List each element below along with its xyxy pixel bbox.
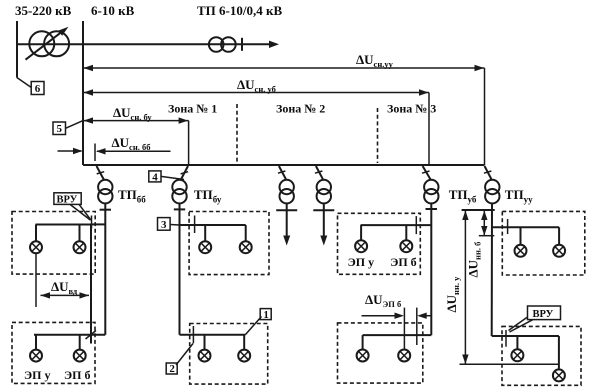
- right group lower dashed box: [502, 326, 581, 385]
- group1 upper lamp 2: [74, 241, 86, 253]
- zone3 lower dashed box: [338, 323, 423, 383]
- group2 upper lamp 2 drop: [245, 225, 247, 241]
- callout 1: [260, 309, 271, 320]
- LV tick TPbu: [174, 208, 185, 210]
- zone3 lower lamp 1: [357, 350, 369, 362]
- right lower lamp 2: [553, 369, 565, 381]
- dimension dU nn.b: [483, 210, 485, 236]
- right lower lamp 1: [511, 349, 523, 361]
- svg-text:6: 6: [35, 83, 41, 95]
- main 0,4 kV line: [83, 164, 485, 166]
- callout 5: [53, 122, 66, 135]
- transformer TPbu: [172, 180, 186, 194]
- tick on TP outgoing line: [241, 38, 243, 51]
- zone3 upper lamp 1: [355, 240, 367, 252]
- group2 lower bus tick: [192, 326, 194, 343]
- zone3 upper lamp 2 drop: [405, 225, 407, 240]
- zone2 feeder A with arrow: [286, 203, 288, 236]
- svg-text:Зона № 3: Зона № 3: [387, 102, 436, 116]
- group2 upper lamp 1: [199, 241, 211, 253]
- right upper lamp 1: [515, 245, 527, 257]
- group1 jog wire VRU junction: [91, 223, 105, 225]
- svg-text:6-10 кВ: 6-10 кВ: [91, 3, 135, 18]
- right lower lamp 1 drop: [516, 336, 518, 349]
- zone2 transformer B: [317, 180, 331, 194]
- wire HV feeder: [17, 43, 271, 45]
- svg-text:ВРУ: ВРУ: [533, 309, 554, 320]
- riser dU sn.uu: [484, 68, 486, 165]
- guide dU nn.u bottom: [460, 363, 559, 365]
- right lower lamp 2 drop: [558, 336, 560, 369]
- LV tick TPub: [426, 208, 438, 210]
- group2 lower lamp 2 drop: [243, 335, 245, 350]
- bus 35-220 kV: [16, 21, 18, 78]
- zone3 lower lamp 1 drop: [362, 335, 364, 349]
- group2 upper dashed box: [189, 212, 269, 275]
- tap-changer arrow of T1: [26, 32, 62, 59]
- transformer T1 35-220/6-10: [29, 31, 54, 56]
- transformer TPbb: [98, 180, 112, 194]
- right upper lamp 1 drop: [520, 227, 522, 245]
- group1 upper box bus: [36, 224, 92, 226]
- LV guide line TPuu: [462, 209, 495, 211]
- right group upper bus tick: [507, 219, 509, 234]
- right lower bus tick: [505, 330, 507, 347]
- svg-text:ВРУ: ВРУ: [57, 194, 78, 205]
- riser dU sn.ub: [428, 93, 430, 166]
- guide dU nn.b bottom: [479, 235, 495, 237]
- transformer TPuu: [485, 180, 499, 194]
- zone divider 2-3: [377, 108, 379, 163]
- right group lower bus: [492, 335, 559, 337]
- right group upper bus: [492, 226, 559, 228]
- group2 lower bus: [180, 334, 246, 336]
- svg-text:4: 4: [152, 171, 158, 183]
- riser dU sn.bu: [188, 121, 190, 165]
- svg-text:Зона № 1: Зона № 1: [168, 102, 217, 116]
- transformer TPbu drop from main line: [180, 166, 188, 181]
- zone2 transformer A LV tick: [276, 209, 297, 211]
- LV tick TPbb: [100, 209, 111, 211]
- svg-text:Зона № 2: Зона № 2: [276, 102, 325, 116]
- callout 4: [149, 171, 161, 182]
- svg-text:ЭП у: ЭП у: [24, 368, 50, 382]
- VRU pointer right: [509, 317, 528, 331]
- feeder TPub down: [430, 203, 432, 335]
- dimension dU nn.u: [464, 210, 466, 364]
- group2 upper lamp 1 drop: [204, 225, 206, 241]
- zone3 lower bus: [363, 334, 432, 336]
- group1 lower lamp 2 drop: [79, 335, 81, 350]
- group1 junction tick: [91, 216, 93, 229]
- group1 VRU branch tick at bus: [86, 331, 97, 340]
- group2 upper bus tick: [194, 216, 196, 234]
- right upper lamp 2 drop: [558, 227, 560, 245]
- feeder TPbu down: [179, 203, 181, 334]
- group2 upper box bus: [180, 224, 246, 226]
- svg-text:ТП 6-10/0,4 кВ: ТП 6-10/0,4 кВ: [197, 3, 282, 18]
- zone3 upper bus tick: [415, 216, 417, 234]
- svg-text:3: 3: [161, 219, 167, 231]
- svg-text:ЭП б: ЭП б: [64, 368, 90, 382]
- svg-text:5: 5: [57, 123, 63, 135]
- callout 3: [158, 218, 171, 231]
- group1 VRU branch down: [90, 224, 92, 343]
- zone divider 1-2: [236, 104, 238, 163]
- transformer TPub: [424, 180, 438, 194]
- group1 lower lamp 1: [30, 350, 42, 362]
- guide line lamp drop zone3: [403, 308, 405, 350]
- zone2 transformer A: [280, 180, 294, 194]
- group2 lower lamp 1 drop: [204, 335, 206, 350]
- zone3 lower lamp 2: [398, 350, 410, 362]
- zone3 upper bus: [361, 224, 432, 226]
- bus 6-10 kV: [82, 21, 84, 165]
- VRU pointer left: [70, 204, 90, 220]
- group1 lower lamp 1 drop: [35, 335, 37, 350]
- group2 lower dashed box: [190, 324, 268, 385]
- VRU box right: [528, 306, 561, 320]
- zone3 upper lamp 2: [400, 240, 412, 252]
- group1 upper lamp 1 drop: [35, 225, 37, 242]
- callout 2: [166, 363, 177, 374]
- zone2 transformer A drop: [279, 166, 286, 179]
- svg-text:ЭП б: ЭП б: [390, 255, 416, 269]
- arrowhead TP feeder: [269, 41, 279, 48]
- group1 lower dashed box: [12, 322, 95, 383]
- group2 lower lamp 2: [238, 350, 250, 362]
- group1 upper lamp 2 drop: [79, 225, 81, 242]
- VRU box left: [54, 193, 81, 205]
- group2 upper lamp 2: [240, 241, 252, 253]
- zone2 feeder B with arrow: [323, 203, 325, 236]
- callout 6: [17, 78, 32, 88]
- transformer TPbb drop from main line: [97, 166, 105, 181]
- group2 lower lamp 1: [199, 350, 211, 362]
- zone3 upper dashed box: [338, 213, 421, 274]
- group1 lower bus: [34, 334, 105, 336]
- svg-text:2: 2: [169, 363, 175, 375]
- zone2 transformer B LV tick: [313, 209, 334, 211]
- feeder TPuu down: [491, 203, 493, 336]
- right group upper dashed box: [502, 211, 585, 275]
- group1 upper dashed box: [12, 212, 95, 275]
- group1 upper lamp 1: [30, 241, 42, 253]
- transformer TPuu drop: [485, 166, 492, 179]
- transformer TP 6-10/0,4: [209, 37, 224, 52]
- guide line at TP bb riser: [94, 144, 96, 162]
- zone2 transformer B drop: [316, 166, 323, 179]
- svg-text:35-220 кВ: 35-220 кВ: [15, 3, 72, 18]
- svg-text:1: 1: [263, 309, 269, 321]
- right upper lamp 2: [553, 245, 565, 257]
- zone3 upper lamp 1 drop: [360, 225, 362, 240]
- guide line riser zone3: [416, 308, 418, 345]
- svg-text:ЭП у: ЭП у: [348, 255, 374, 269]
- guide below lamp 1: [35, 253, 37, 307]
- transformer TPub drop: [423, 166, 431, 179]
- feeder TPbb down: [104, 203, 106, 334]
- group1 lower lamp 2: [74, 350, 86, 362]
